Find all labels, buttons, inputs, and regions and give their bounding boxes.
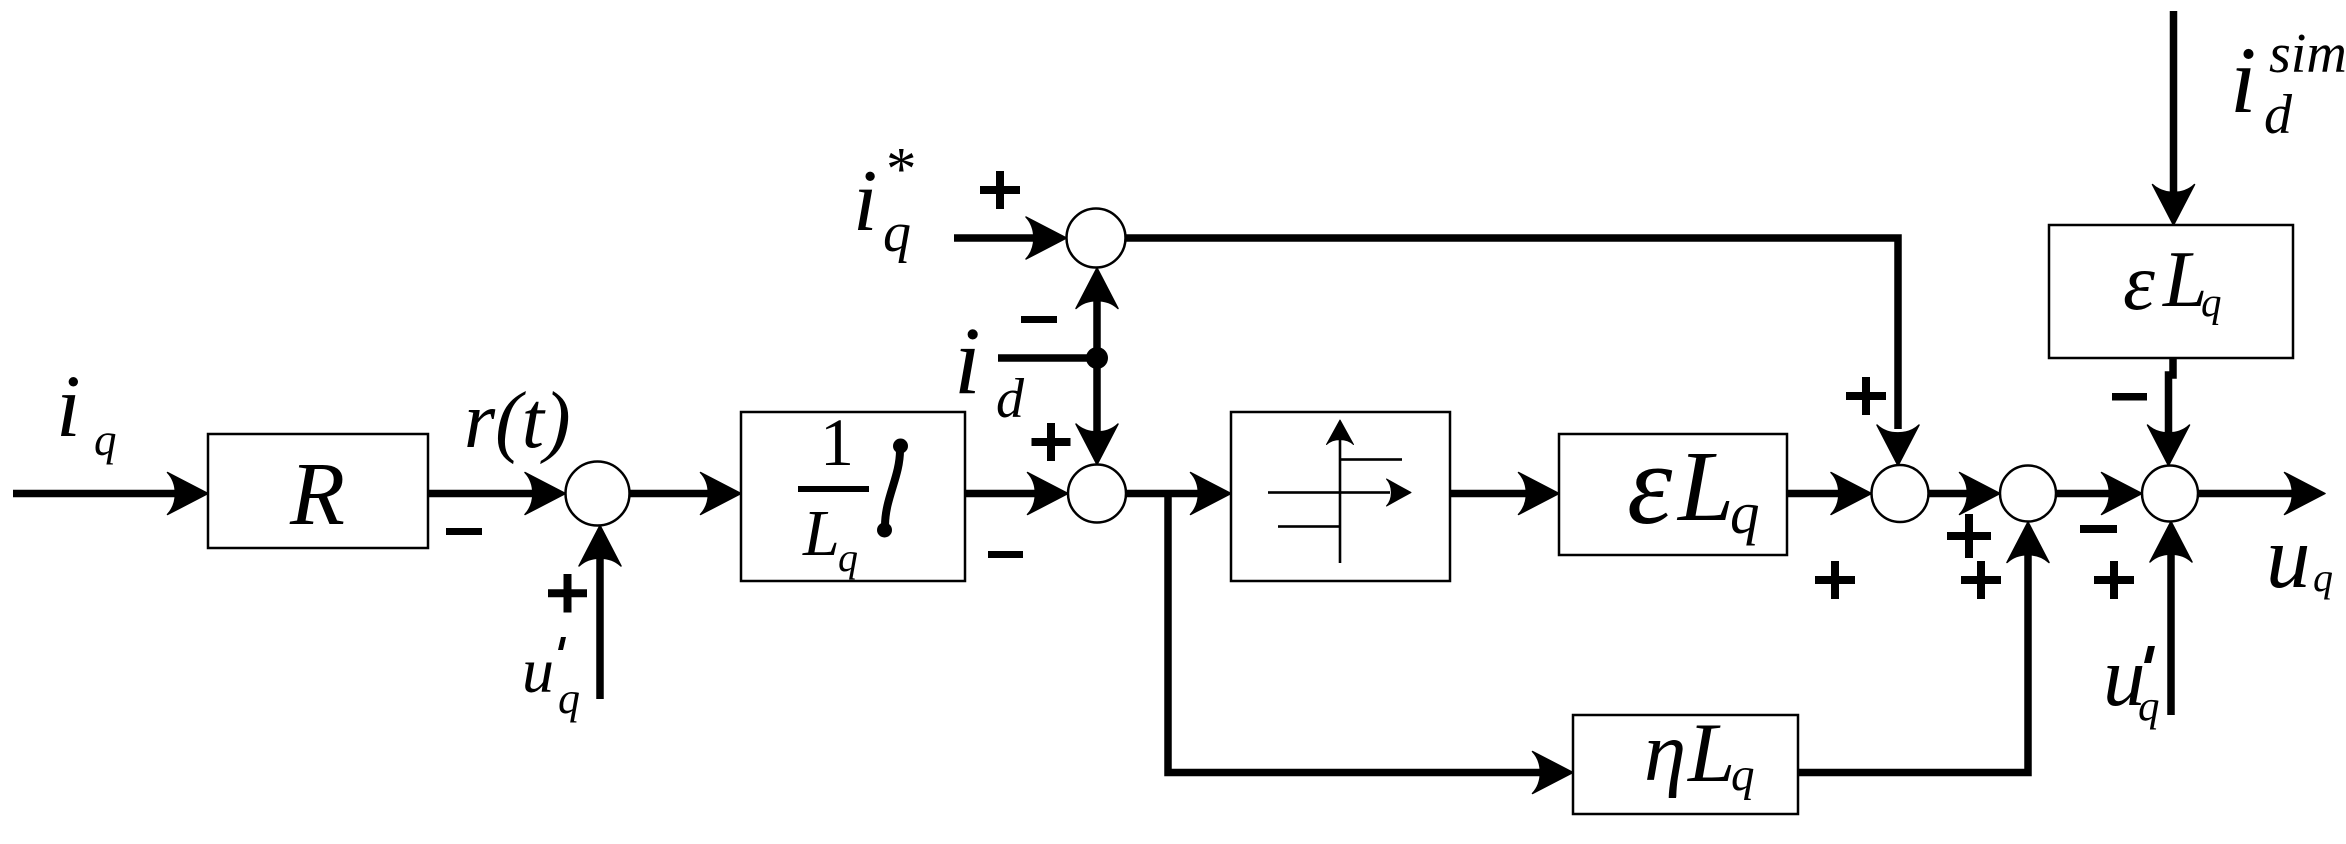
summing junction 3 <box>1872 465 1929 522</box>
node u'q lower-right label <box>2103 630 2160 730</box>
arrowhead into relay block <box>1191 473 1232 515</box>
svg-text:u: u <box>2266 509 2311 607</box>
arrowhead into epsilon-Lq block <box>1519 473 1560 515</box>
summing junction 4 <box>2000 466 2056 522</box>
minus sign under wire into summing junction 5 <box>2080 525 2117 533</box>
svg-text:i: i <box>954 307 981 414</box>
svg-text:i: i <box>853 153 877 250</box>
node u'q lower-left label <box>522 635 580 723</box>
svg-text:L: L <box>1676 430 1734 542</box>
svg-text:u: u <box>522 635 554 706</box>
block R <box>208 434 428 548</box>
svg-text:d: d <box>996 368 1025 430</box>
svg-text:L: L <box>802 497 840 570</box>
node i_d^sim input label <box>2230 23 2346 146</box>
arrowhead into top summing junction <box>1026 217 1067 259</box>
summing junction 5 <box>2142 466 2198 522</box>
svg-text:R: R <box>289 445 345 544</box>
arrowhead into R <box>168 473 209 515</box>
svg-text:q: q <box>558 674 580 723</box>
wire branch from summing junction 2 output down to eta-Lq block <box>1168 490 1550 773</box>
wire junction dot down to summing junction 2 <box>1093 358 1101 442</box>
plus sign for i_d into summing junction 2 <box>1032 423 1071 461</box>
arrowhead into summing junction 1 <box>525 473 566 515</box>
svg-text:*: * <box>886 136 917 203</box>
plus sign for u'q into summing junction 5 <box>2094 561 2134 599</box>
wire i*q into top summing junction <box>954 234 1044 242</box>
svg-text:r(t): r(t) <box>464 377 571 465</box>
svg-text:ε: ε <box>2123 237 2155 327</box>
svg-text:1: 1 <box>820 404 854 480</box>
arrowhead output <box>2285 473 2326 515</box>
arrowhead into summing junction 5 <box>2102 473 2143 515</box>
wire i_d to junction dot <box>998 354 1097 362</box>
wire output from summing junction 5 <box>2198 490 2302 498</box>
svg-text:ε: ε <box>1627 421 1673 548</box>
svg-text:q: q <box>1730 480 1760 546</box>
svg-text:q: q <box>2201 279 2222 325</box>
node u_q output label <box>2266 509 2333 607</box>
svg-text:L: L <box>1687 706 1735 800</box>
wire u'q up into summing junction 1 <box>596 549 604 699</box>
wire top epsilon-Lq block down to summing junction 5 <box>2169 358 2174 441</box>
minus sign below summing junction 2 <box>988 551 1023 558</box>
wire u'q up into summing junction 5 <box>2167 545 2175 715</box>
plus sign below epsilon-Lq output <box>1815 561 1855 599</box>
wire eta-Lq output up into summing junction 4 <box>1798 546 2028 773</box>
svg-text:q: q <box>838 535 858 580</box>
arrowhead into integrator block <box>701 473 742 515</box>
node i_d label <box>954 307 1025 430</box>
arrowhead into summing junction 4 <box>1960 473 2001 515</box>
wire epsilon-Lq to summing junction 3 <box>1787 490 1848 498</box>
svg-text:q: q <box>94 415 117 465</box>
svg-text:i: i <box>56 358 81 456</box>
block relay with hysteresis <box>1231 412 1450 581</box>
wire summing junction 2 to relay block <box>1126 490 1209 498</box>
arrowhead up into summing junction 4 <box>2007 522 2049 563</box>
arrowhead into summing junction 2 <box>1028 473 1069 515</box>
wire summing junction 4 to summing junction 5 <box>2056 490 2119 498</box>
arrowhead up into top summing junction <box>1076 268 1118 309</box>
minus sign for top epsilon-Lq into summing junction 5 <box>2112 393 2147 401</box>
node i_q input label <box>56 358 117 465</box>
block epsilon-Lq middle <box>1559 421 1787 555</box>
arrowhead down into summing junction 3 <box>1877 425 1919 466</box>
wire summing junction 3 to summing junction 4 <box>1929 490 1978 498</box>
arrowhead down into summing junction 5 <box>2148 425 2190 466</box>
plus sign for feedback into summing junction 4 <box>1961 561 2001 599</box>
wire junction dot up to top summing junction <box>1093 290 1101 358</box>
svg-text:q: q <box>1731 749 1755 801</box>
svg-text:η: η <box>1644 705 1686 799</box>
svg-text:d: d <box>2264 84 2293 146</box>
wire top summing junction right and down to summing junction 3 <box>1126 238 1899 429</box>
junction dot on i_d line <box>1086 347 1108 369</box>
svg-text:q: q <box>2313 555 2333 600</box>
arrowhead u'q into summing junction 1 <box>579 526 621 567</box>
wire integrator to summing junction 2 <box>965 490 1045 498</box>
plus sign for i*q input <box>980 171 1020 209</box>
wire summing junction 1 to integrator block <box>629 490 718 498</box>
arrowhead down into summing junction 2 <box>1076 424 1118 465</box>
block eta-Lq <box>1573 705 1798 814</box>
plus sign for top line into summing junction 3 <box>1846 377 1886 415</box>
wire R to summing junction 1 <box>428 490 543 498</box>
plus sign for u'q input <box>548 574 587 613</box>
block epsilon-Lq top right <box>2049 225 2293 358</box>
node i*q reference label <box>853 136 917 264</box>
wire i_d^sim down into top epsilon-Lq block <box>2170 11 2178 201</box>
svg-text:q: q <box>883 202 911 264</box>
plus sign under wire into summing junction 4 <box>1947 514 1991 558</box>
summing junction 2 <box>1068 465 1126 523</box>
arrowhead u'q into summing junction 5 <box>2150 522 2192 563</box>
summing junction 1 <box>566 462 630 526</box>
top summing junction <box>1067 209 1126 268</box>
minus sign for i_d into top summing junction <box>1021 316 1057 323</box>
svg-text:q: q <box>2138 683 2160 730</box>
minus sign at summing junction 1 <box>446 528 482 535</box>
svg-text:sim: sim <box>2269 23 2346 85</box>
wire relay to epsilon-Lq block <box>1450 490 1536 498</box>
svg-text:i: i <box>2230 27 2256 133</box>
wire input to R <box>13 490 186 498</box>
arrowhead into eta-Lq block <box>1533 752 1574 794</box>
arrowhead into top epsilon-Lq block <box>2153 185 2195 226</box>
block 1/Lq integrator <box>741 404 965 581</box>
arrowhead into summing junction 3 <box>1831 473 1872 515</box>
